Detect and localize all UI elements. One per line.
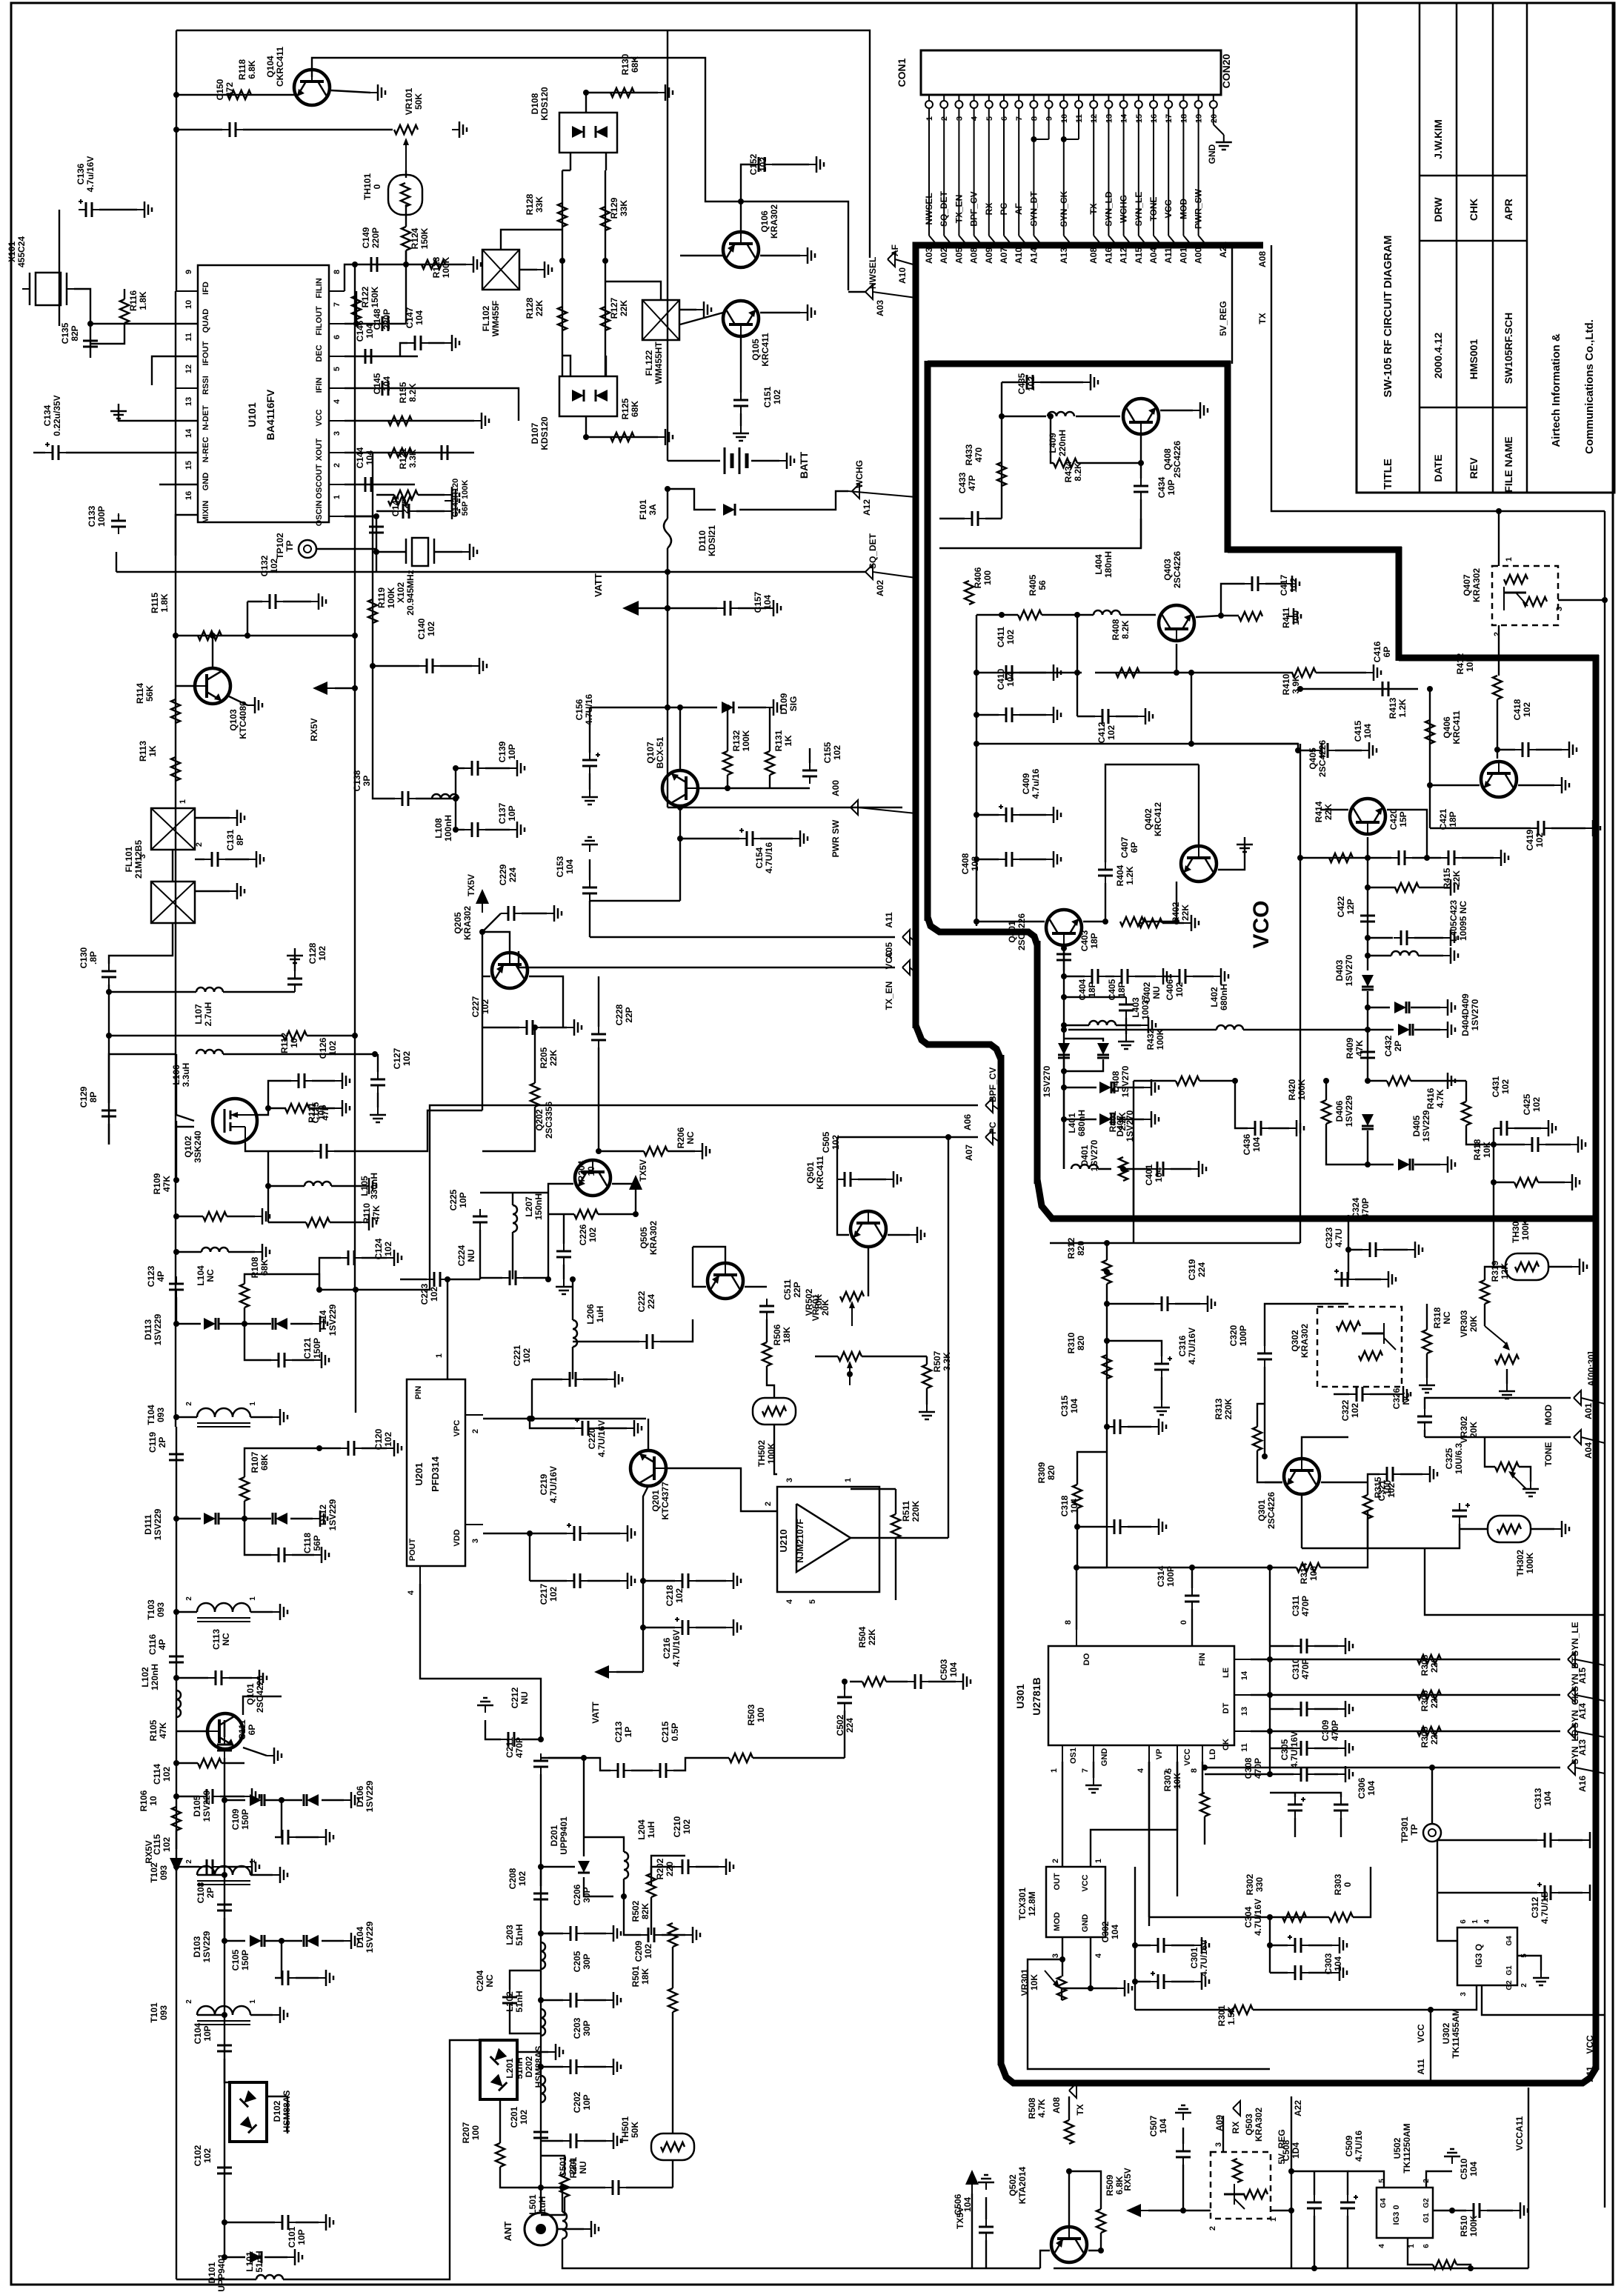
ground C128 bbox=[287, 948, 303, 963]
ground VCC row bbox=[474, 413, 489, 429]
U201 pin 4 POUT bbox=[419, 1566, 421, 1584]
svg-text:KRC411: KRC411 bbox=[1451, 710, 1462, 744]
wire c221 l2 bbox=[532, 1379, 562, 1380]
ground C311 bbox=[1338, 1638, 1353, 1654]
svg-text:47K: 47K bbox=[158, 1722, 168, 1739]
svg-text:13: 13 bbox=[1240, 1707, 1249, 1716]
svg-text:10P: 10P bbox=[582, 2094, 592, 2110]
wire c510 l bbox=[1452, 2210, 1466, 2211]
svg-text:1: 1 bbox=[249, 1596, 257, 1601]
junction g2 node bbox=[173, 1177, 179, 1183]
svg-text:102: 102 bbox=[269, 559, 279, 573]
svg-text:2SC4226: 2SC4226 bbox=[1172, 441, 1182, 478]
svg-text:2: 2 bbox=[185, 1999, 193, 2004]
svg-text:R106: R106 bbox=[139, 1790, 149, 1811]
wire d407 gnd bbox=[1117, 1087, 1144, 1088]
resistor R114 bbox=[171, 699, 180, 723]
resistor R113 bbox=[171, 757, 180, 781]
diode D112 1SV229 bbox=[273, 1513, 287, 1525]
wire c137 gnd bbox=[485, 829, 510, 830]
wire c131 gnd bbox=[225, 859, 249, 860]
U101 pin 14 N-REC bbox=[176, 452, 198, 453]
wire q502 c bbox=[1040, 2251, 1050, 2268]
wire vr501 r bbox=[862, 1356, 927, 1357]
wire c406 gnd bbox=[1193, 976, 1214, 977]
junction r132 bbox=[725, 704, 731, 710]
CON1 pin 10 stub bbox=[1063, 95, 1065, 101]
IC U101 BA4116FV bbox=[198, 265, 329, 522]
wire Q104 emitter bbox=[331, 90, 370, 93]
thick bus right vertical bbox=[1593, 655, 1600, 2070]
wire c510 gnd bbox=[1487, 2210, 1513, 2211]
svg-text:8: 8 bbox=[333, 270, 342, 274]
wire l409 to q408 bbox=[1076, 416, 1120, 417]
svg-text:6P: 6P bbox=[1382, 647, 1392, 658]
junction c309 bbox=[1267, 1728, 1273, 1734]
junction c219 bbox=[527, 1530, 533, 1536]
net flag SYN_DT bbox=[1568, 1688, 1575, 1702]
capacitor C118 bbox=[271, 1548, 292, 1562]
svg-text:C115: C115 bbox=[152, 1834, 162, 1855]
wire rail479 bbox=[354, 264, 356, 1290]
svg-text:D405: D405 bbox=[1411, 1115, 1422, 1136]
ground C124 bbox=[387, 1250, 402, 1266]
svg-text:68K: 68K bbox=[630, 401, 640, 417]
wire l206 dn bbox=[572, 1347, 573, 1379]
svg-text:33K: 33K bbox=[534, 196, 545, 213]
junction c508 bbox=[1311, 2265, 1317, 2271]
svg-text:10: 10 bbox=[586, 1166, 596, 1176]
svg-text:A13: A13 bbox=[1059, 247, 1069, 264]
svg-text:100K: 100K bbox=[741, 730, 751, 751]
wire c211 row bbox=[548, 1757, 584, 1759]
wire r207 up bbox=[499, 2099, 501, 2143]
wire c126 stub bbox=[268, 1081, 291, 1108]
wire r432 rail bbox=[1234, 1081, 1236, 1118]
resistor Q302 r1 bbox=[1337, 1322, 1360, 1330]
svg-text:102: 102 bbox=[1026, 376, 1036, 391]
CON1 pin 8 wire bbox=[1033, 108, 1034, 236]
svg-text:C130: C130 bbox=[79, 947, 89, 968]
svg-text:C412: C412 bbox=[1096, 722, 1107, 743]
CON1 pin 9 stub bbox=[1048, 95, 1050, 101]
capacitor C322 bbox=[1349, 1387, 1370, 1402]
wire c109 stub bbox=[275, 1800, 282, 1837]
svg-text:VCC: VCC bbox=[1081, 1874, 1090, 1891]
CON1 pin 17 stub bbox=[1168, 95, 1169, 101]
svg-text:A06: A06 bbox=[962, 1114, 973, 1130]
svg-text:BATT: BATT bbox=[798, 451, 810, 479]
junction row930 l bbox=[1297, 686, 1303, 692]
svg-text:TK11455AM: TK11455AM bbox=[1451, 2008, 1461, 2058]
capacitor C222 bbox=[639, 1334, 660, 1349]
svg-text:C435: C435 bbox=[1016, 373, 1027, 394]
wire C133 bbox=[118, 515, 119, 516]
net flag NWSEL bbox=[865, 284, 873, 299]
wire c407 up bbox=[1105, 764, 1199, 862]
wire r319 up bbox=[1485, 1267, 1505, 1280]
svg-text:R121: R121 bbox=[398, 447, 408, 469]
svg-text:220P: 220P bbox=[382, 309, 392, 330]
ground C405 bbox=[1156, 968, 1171, 985]
wire r204 r bbox=[598, 1213, 636, 1215]
resistor R310 bbox=[1102, 1355, 1111, 1379]
junction q502 b bbox=[1066, 2168, 1072, 2174]
svg-text:U101: U101 bbox=[246, 402, 258, 427]
capacitor C408 bbox=[999, 852, 1019, 867]
wire q102 gate rail bbox=[176, 1054, 194, 1121]
net TX_EN diag bbox=[910, 967, 916, 973]
ground C101 bbox=[319, 2214, 333, 2231]
resistor R118 bbox=[227, 90, 251, 99]
svg-text:18P: 18P bbox=[1116, 982, 1127, 997]
net flag TONE bbox=[1574, 1430, 1581, 1445]
svg-text:472: 472 bbox=[224, 82, 235, 97]
svg-text:G2: G2 bbox=[1505, 1980, 1514, 1990]
net SYN_LD diag bbox=[1575, 1768, 1605, 1773]
svg-text:1SV229: 1SV229 bbox=[202, 1930, 212, 1962]
svg-text:1: 1 bbox=[1505, 557, 1514, 562]
wire q402 base up bbox=[1198, 764, 1199, 844]
ground C220 bbox=[627, 1420, 642, 1436]
svg-text:L207: L207 bbox=[524, 1196, 534, 1217]
wire c312 l bbox=[1437, 1892, 1537, 1893]
wire row1004 bbox=[976, 743, 1298, 744]
wire c203 gnd bbox=[584, 2066, 606, 2068]
svg-text:R319: R319 bbox=[1490, 1260, 1500, 1282]
ground C319 bbox=[1200, 1296, 1215, 1312]
wire rx5v row bbox=[1148, 2210, 1211, 2211]
diode array D102 HSM88AS bbox=[230, 2082, 267, 2142]
inductor L203 bbox=[541, 1942, 545, 1969]
wire tx5v bot bbox=[971, 2193, 973, 2268]
svg-text:102: 102 bbox=[522, 1348, 532, 1363]
resistor VR301 bbox=[1057, 1976, 1066, 2000]
wire q407 top bbox=[1498, 511, 1500, 566]
junction c507 bbox=[1180, 2208, 1186, 2213]
U201 pin 3 VDD bbox=[465, 1524, 483, 1525]
ground D401 bbox=[1144, 1111, 1159, 1127]
CON1 pin 12 stub bbox=[1093, 95, 1094, 101]
svg-text:220nH: 220nH bbox=[1057, 430, 1068, 456]
wire c227 gnd bbox=[540, 1027, 567, 1028]
wire pout rail bbox=[420, 1584, 541, 1739]
wire xtal gnd bbox=[434, 551, 462, 553]
junction t102 bbox=[222, 1872, 227, 1878]
ground D407 bbox=[1144, 1079, 1159, 1096]
inductor L202 bbox=[541, 2009, 545, 2036]
svg-text:21M12B5: 21M12B5 bbox=[133, 840, 144, 879]
ground Q103 emitter bbox=[247, 697, 262, 713]
resistor VR303 bbox=[1495, 1355, 1519, 1364]
capacitor C216 bbox=[675, 1617, 696, 1635]
wire r412 dn bbox=[1497, 699, 1498, 759]
U101 pin 1 OSCIN bbox=[329, 516, 345, 517]
net SYN_CK diag bbox=[1575, 1731, 1605, 1737]
svg-text:R303: R303 bbox=[1333, 1873, 1343, 1895]
svg-text:C202: C202 bbox=[572, 2091, 582, 2113]
junction c115 bbox=[173, 1864, 179, 1870]
U201 pin 2 VPC bbox=[465, 1414, 483, 1416]
wire r109 row bbox=[176, 1216, 203, 1217]
resistor R432 bbox=[1176, 1076, 1199, 1085]
net VCC diag bbox=[910, 937, 916, 942]
wire l401 to r401 bbox=[1098, 1168, 1111, 1170]
ground C304 bbox=[1332, 1937, 1347, 1953]
svg-text:NJM2107F: NJM2107F bbox=[795, 1519, 805, 1562]
wire r420 up bbox=[1325, 1081, 1327, 1100]
wire q408 rail bbox=[1001, 382, 1002, 519]
wire rail503 bbox=[372, 453, 373, 666]
capacitor C152 bbox=[751, 157, 772, 172]
svg-text:TK11250AM: TK11250AM bbox=[1402, 2123, 1412, 2173]
junction q408 l409 bbox=[999, 413, 1005, 419]
wire rail303 bot bbox=[224, 2229, 225, 2257]
wire c156 gnd bbox=[589, 773, 590, 790]
wire r202 up bbox=[651, 1856, 685, 1873]
capacitor C434 bbox=[1134, 479, 1148, 499]
wire c303 gnd bbox=[1308, 1972, 1332, 1973]
svg-text:Q405: Q405 bbox=[1308, 747, 1318, 770]
title block divider v4 bbox=[1526, 3, 1528, 493]
svg-text:33K: 33K bbox=[619, 200, 629, 216]
U101 pin 10 QUAD bbox=[176, 323, 198, 324]
wire c319 gnd bbox=[1175, 1303, 1200, 1305]
wire c502 r503 bbox=[844, 1733, 845, 1758]
wire c229 gnd bbox=[522, 913, 547, 914]
wire mod loop bbox=[1028, 1959, 1270, 2069]
resistor R418 bbox=[1514, 1178, 1538, 1187]
svg-text:224: 224 bbox=[1197, 1262, 1207, 1277]
svg-text:15P: 15P bbox=[1398, 811, 1408, 827]
svg-text:L204: L204 bbox=[636, 1819, 647, 1840]
junction d113 bbox=[173, 1321, 179, 1327]
wire t102 gnd bbox=[250, 1874, 273, 1876]
svg-text:C301: C301 bbox=[1189, 1947, 1199, 1968]
svg-text:C411: C411 bbox=[996, 627, 1006, 647]
U101 pin 5 IFIN bbox=[329, 387, 345, 389]
svg-text:104: 104 bbox=[565, 859, 575, 874]
svg-text:NU: NU bbox=[1151, 986, 1162, 999]
svg-text:C140: C140 bbox=[416, 618, 427, 639]
junction c420 r bbox=[1424, 855, 1430, 861]
svg-text:R411: R411 bbox=[1281, 607, 1291, 628]
Q407 transistor lines bbox=[1504, 592, 1526, 594]
ground T102 bbox=[273, 1867, 287, 1883]
capacitor C154 bbox=[739, 828, 760, 846]
wire q403 base bbox=[1176, 644, 1177, 673]
svg-text:104: 104 bbox=[1543, 1791, 1553, 1806]
junction c501 bbox=[538, 2185, 544, 2191]
capacitor C415 bbox=[1314, 743, 1335, 758]
svg-text:FILIN: FILIN bbox=[315, 278, 324, 299]
svg-text:FL102: FL102 bbox=[481, 305, 491, 331]
title block divider h1 bbox=[1420, 175, 1527, 177]
resistor R106 bbox=[172, 1807, 181, 1830]
capacitor C146 bbox=[358, 349, 379, 364]
junction q103 c bbox=[210, 633, 216, 639]
ground C105 bbox=[319, 1970, 333, 1986]
wire c325 row2 bbox=[1425, 1548, 1605, 1615]
capacitor C401 bbox=[1150, 1162, 1171, 1176]
svg-text:WM455HT: WM455HT bbox=[653, 342, 664, 384]
ground C227 bbox=[567, 1019, 582, 1036]
capacitor C309 bbox=[1294, 1741, 1314, 1756]
wire q405 e bbox=[1387, 810, 1427, 858]
transistor Q302 dashed box bbox=[1317, 1307, 1402, 1387]
svg-text:TX5V: TX5V bbox=[466, 874, 476, 896]
svg-text:C125: C125 bbox=[310, 1102, 321, 1123]
wire q202 down bbox=[548, 1214, 549, 1279]
thermistor TH301 zigzag bbox=[1515, 1262, 1539, 1271]
wire c434 down bbox=[1140, 499, 1142, 548]
ground C324 bbox=[1408, 1242, 1422, 1258]
wire c109 gnd bbox=[296, 1836, 319, 1838]
svg-text:4.7U/1B: 4.7U/1B bbox=[1540, 1891, 1550, 1924]
svg-text:R502: R502 bbox=[630, 1900, 641, 1922]
wire q505 e bbox=[693, 1247, 706, 1287]
wire d104 gnd bbox=[322, 1940, 344, 1942]
wire c309 l bbox=[1270, 1748, 1294, 1749]
wire c216 row bbox=[643, 1627, 675, 1628]
capacitor C220 bbox=[575, 1418, 596, 1436]
ground C219 bbox=[620, 1525, 635, 1542]
wire r202 dn bbox=[650, 1897, 652, 1935]
wire q301 e row bbox=[1302, 1548, 1425, 1549]
transistor Q501 bbox=[851, 1211, 886, 1247]
svg-text:L409: L409 bbox=[1048, 433, 1058, 453]
wire c31x rail bbox=[1269, 1568, 1271, 1774]
ground C113 bbox=[252, 1670, 267, 1686]
CON1 pin 15 wire bbox=[1138, 108, 1139, 236]
ground Q104 emitter bbox=[370, 84, 385, 101]
resistor R415 bbox=[1395, 883, 1419, 892]
ground U301 bbox=[1085, 1778, 1102, 1793]
svg-text:R434: R434 bbox=[1063, 461, 1074, 482]
inductor L104 bbox=[202, 1247, 228, 1252]
svg-text:47P: 47P bbox=[320, 1105, 330, 1120]
junction c124 node bbox=[316, 1287, 322, 1293]
wire C148 up bbox=[405, 250, 407, 324]
svg-text:WM455F: WM455F bbox=[490, 301, 501, 337]
svg-text:C101: C101 bbox=[287, 2226, 297, 2248]
wire r110 gnd bbox=[330, 1222, 362, 1223]
capacitor C319 bbox=[1154, 1296, 1175, 1311]
capacitor C404 bbox=[1085, 969, 1105, 984]
svg-text:C508: C508 bbox=[1281, 2139, 1291, 2161]
junction q402 c bbox=[1174, 919, 1179, 925]
wire r307 dn bbox=[1204, 1816, 1205, 1845]
wire DEC row bbox=[345, 356, 418, 357]
VR303 arrow bbox=[1485, 1326, 1507, 1345]
net NWSEL diagonal bbox=[873, 292, 916, 298]
wire c209 gnd bbox=[662, 1934, 685, 1936]
ground C406 bbox=[1214, 968, 1228, 985]
wire q405 row bbox=[1320, 809, 1348, 810]
ground C322 bbox=[1396, 1386, 1411, 1402]
svg-text:R413: R413 bbox=[1388, 697, 1398, 719]
svg-text:L403: L403 bbox=[1131, 997, 1141, 1018]
svg-text:2P: 2P bbox=[157, 1437, 167, 1448]
svg-text:5: 5 bbox=[808, 1599, 817, 1604]
wire r131 up bbox=[769, 707, 771, 751]
wire t103 row bbox=[176, 1611, 197, 1613]
wire tcx out up bbox=[1062, 1762, 1063, 1867]
svg-text:BCX-51: BCX-51 bbox=[655, 736, 665, 768]
wire d101 gnd bbox=[264, 2256, 287, 2258]
thick vco left2 bbox=[1034, 941, 1041, 1184]
wire c408 row bbox=[976, 859, 999, 860]
wire ant up bbox=[540, 1867, 542, 2213]
capacitor C412 bbox=[1095, 709, 1116, 724]
wire r402 gnd bbox=[1162, 922, 1184, 924]
wire c304 gnd bbox=[1308, 1945, 1332, 1946]
wire c120 l bbox=[319, 1448, 341, 1449]
svg-text:15: 15 bbox=[184, 461, 193, 470]
svg-text:4.7K: 4.7K bbox=[1036, 2099, 1047, 2118]
svg-text:A11: A11 bbox=[1585, 2066, 1595, 2082]
diode D107a bbox=[572, 390, 584, 402]
svg-text:C410: C410 bbox=[996, 668, 1006, 690]
inductor L101 bbox=[256, 2275, 283, 2279]
svg-text:470: 470 bbox=[974, 447, 984, 462]
diode D106 1SV229 bbox=[304, 1794, 319, 1806]
svg-text:A08: A08 bbox=[1051, 2097, 1062, 2113]
wire u302 left bbox=[1437, 1840, 1457, 1941]
svg-text:104: 104 bbox=[1154, 1167, 1164, 1182]
svg-text:A02: A02 bbox=[939, 247, 949, 264]
ground D202 bbox=[548, 2044, 563, 2060]
svg-text:PC: PC bbox=[988, 1122, 998, 1134]
svg-text:10P: 10P bbox=[296, 2229, 307, 2245]
svg-text:820: 820 bbox=[1046, 1465, 1056, 1480]
wire l106 right bbox=[223, 1053, 375, 1055]
svg-text:R113: R113 bbox=[138, 741, 148, 762]
junction d111 bbox=[173, 1516, 179, 1522]
svg-text:51nH: 51nH bbox=[514, 1990, 525, 2012]
svg-text:NC: NC bbox=[485, 1974, 495, 1988]
wire rail1755 bbox=[1299, 744, 1301, 1243]
svg-text:093: 093 bbox=[156, 1602, 166, 1617]
svg-text:A08: A08 bbox=[1257, 251, 1268, 267]
transistor Q107 bbox=[662, 770, 698, 806]
svg-text:KTA2014: KTA2014 bbox=[1017, 2166, 1028, 2204]
svg-text:C139: C139 bbox=[497, 741, 507, 762]
wire q501 c bbox=[837, 1179, 849, 1235]
svg-text:2: 2 bbox=[1051, 1859, 1060, 1863]
ground R409 bbox=[1440, 1073, 1455, 1089]
capacitor C508 bbox=[1307, 2195, 1322, 2216]
svg-text:6P: 6P bbox=[247, 1725, 257, 1736]
wire wchg row2 bbox=[739, 491, 848, 510]
junction c502 bbox=[842, 1679, 848, 1685]
svg-text:R105: R105 bbox=[148, 1719, 159, 1741]
wire c318 gnd bbox=[1128, 1526, 1151, 1528]
svg-text:C131: C131 bbox=[225, 829, 236, 850]
svg-text:104: 104 bbox=[1069, 1499, 1079, 1513]
junction row1004 bbox=[1188, 741, 1194, 747]
svg-text:C303: C303 bbox=[1323, 1953, 1334, 1974]
svg-text:10P: 10P bbox=[458, 1192, 468, 1207]
wire c211 dn bbox=[540, 1774, 542, 1867]
wire c507 dn bbox=[1182, 2165, 1184, 2211]
CON1 pin 2 stub bbox=[943, 95, 945, 101]
svg-text:Q107: Q107 bbox=[645, 742, 656, 764]
net SYN_LE diag bbox=[1575, 1659, 1605, 1665]
wire d109 row bbox=[668, 707, 717, 708]
wire c101 gnd bbox=[296, 2222, 319, 2223]
ground C118 bbox=[314, 1547, 329, 1563]
